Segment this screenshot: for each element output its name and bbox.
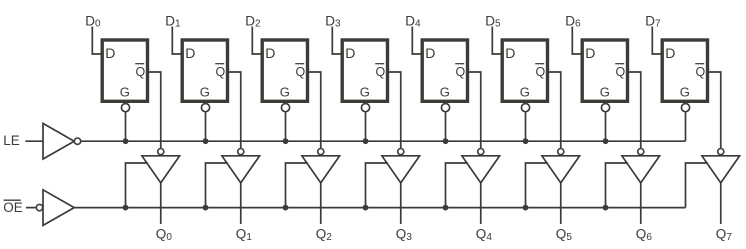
- svg-text:Q7: Q7: [716, 227, 733, 243]
- latch U1 (D latch, bit 0): [102, 40, 147, 101]
- pin label G (U2): [200, 84, 210, 99]
- wire T4 output to Q3: [400, 183, 402, 224]
- svg-text:G: G: [280, 84, 290, 99]
- wire Q-bar of U8 to buffer T8: [709, 72, 721, 149]
- svg-text:D6: D6: [565, 13, 581, 29]
- wire G4 (U5 gate to LE line): [445, 112, 447, 141]
- svg-text:D4: D4: [405, 13, 421, 29]
- inverter OE buffer (bubble on input): [36, 190, 74, 226]
- tri-state inverting buffer T5 (bubble on input): [462, 149, 500, 183]
- tri-state inverting buffer T3 (bubble on input): [302, 149, 340, 183]
- svg-text:G: G: [360, 84, 370, 99]
- junction OE / EN5: [523, 205, 529, 211]
- latch U7 (D latch, bit 6): [582, 40, 627, 101]
- junction OE / EN6: [603, 205, 609, 211]
- svg-text:D: D: [665, 45, 675, 61]
- bubble G input (U2, active level): [201, 104, 209, 112]
- wire D1 input: [172, 27, 182, 55]
- pin label Q-bar (U5): [455, 64, 465, 79]
- svg-text:Q: Q: [296, 65, 306, 79]
- svg-text:Q: Q: [456, 65, 466, 79]
- svg-text:Q: Q: [616, 65, 626, 79]
- bubble G input (U8, active level): [681, 104, 689, 112]
- tri-state inverting buffer T1 (bubble on input): [142, 149, 180, 183]
- latch U2 (D latch, bit 1): [182, 40, 227, 101]
- wire T6 output to Q5: [560, 183, 562, 224]
- net label LE: [3, 133, 20, 148]
- net label Q7: [716, 227, 733, 243]
- bubble G input (U4, active level): [361, 104, 369, 112]
- net label D0: [85, 13, 101, 29]
- net label Q1: [236, 227, 253, 243]
- pin label G (U3): [280, 84, 290, 99]
- svg-text:G: G: [120, 84, 130, 99]
- wire G6 (U7 gate to LE line): [605, 112, 607, 141]
- wire OE tap to T2 enable: [206, 163, 228, 208]
- svg-text:D: D: [265, 45, 275, 61]
- latch U5 (D latch, bit 4): [422, 40, 467, 101]
- pin label Q-bar (U3): [295, 64, 305, 79]
- svg-text:Q: Q: [696, 65, 706, 79]
- latch U8 (D latch, bit 7): [662, 40, 707, 101]
- wire Q-bar of U5 to buffer T5: [469, 72, 481, 149]
- svg-text:Q2: Q2: [316, 227, 333, 243]
- net label D2: [245, 13, 261, 29]
- wire Q-bar of U3 to buffer T3: [309, 72, 321, 149]
- net label D1: [165, 13, 181, 29]
- inverter LE buffer: [43, 123, 81, 159]
- wire OE tap to T4 enable: [366, 163, 388, 208]
- junction LE / G2: [283, 138, 289, 144]
- wire Q-bar of U1 to buffer T1: [149, 72, 161, 149]
- wire OE tap to T5 enable: [446, 163, 468, 208]
- svg-text:Q6: Q6: [636, 227, 653, 243]
- svg-text:D5: D5: [485, 13, 501, 29]
- svg-text:D: D: [345, 45, 355, 61]
- svg-text:G: G: [520, 84, 530, 99]
- tri-state inverting buffer T2 (bubble on input): [222, 149, 260, 183]
- pin label G (U7): [600, 84, 610, 99]
- junction OE / EN3: [363, 205, 369, 211]
- pin label D (U8): [665, 45, 675, 61]
- pin label D (U1): [105, 45, 115, 61]
- pin label D (U5): [425, 45, 435, 61]
- pin label G (U5): [440, 84, 450, 99]
- tri-state inverting buffer T4 (bubble on input): [382, 149, 420, 183]
- svg-text:G: G: [440, 84, 450, 99]
- junction OE / EN2: [283, 205, 289, 211]
- svg-text:D1: D1: [165, 13, 181, 29]
- tri-state inverting buffer T7 (bubble on input): [622, 149, 660, 183]
- svg-text:D3: D3: [325, 13, 341, 29]
- net label D5: [485, 13, 501, 29]
- svg-text:Q: Q: [216, 65, 226, 79]
- bubble G input (U6, active level): [521, 104, 529, 112]
- wire G5 (U6 gate to LE line): [525, 112, 527, 141]
- wire Q-bar of U7 to buffer T7: [629, 72, 641, 149]
- wire D5 input: [492, 27, 502, 55]
- wire T8 output to Q7: [720, 183, 722, 224]
- pin label Q-bar (U7): [615, 64, 625, 79]
- wire OE tap to T7 enable: [606, 163, 628, 208]
- svg-text:Q0: Q0: [156, 227, 173, 243]
- net label Q6: [636, 227, 653, 243]
- svg-text:Q: Q: [376, 65, 386, 79]
- junction LE / G5: [523, 138, 529, 144]
- junction LE / G0: [123, 138, 129, 144]
- wire OE tap to T3 enable: [286, 163, 308, 208]
- wire G3 (U4 gate to LE line): [365, 112, 367, 141]
- svg-text:G: G: [680, 84, 690, 99]
- svg-text:D: D: [505, 45, 515, 61]
- svg-text:Q5: Q5: [556, 227, 573, 243]
- pin label Q-bar (U2): [215, 64, 225, 79]
- svg-text:D: D: [425, 45, 435, 61]
- pin label G (U4): [360, 84, 370, 99]
- wire D3 input: [332, 27, 342, 55]
- pin label G (U6): [520, 84, 530, 99]
- pin label Q-bar (U4): [375, 64, 385, 79]
- wire G7 (U8 gate to LE line): [685, 112, 687, 141]
- wire T5 output to Q4: [480, 183, 482, 224]
- tri-state inverting buffer T8 (bubble on input): [702, 149, 740, 183]
- wire OE tap to T6 enable: [526, 163, 548, 208]
- net label D4: [405, 13, 421, 29]
- wire D0 input: [92, 27, 102, 55]
- net label D7: [645, 13, 661, 29]
- svg-text:G: G: [600, 84, 610, 99]
- net label Q4: [476, 227, 493, 243]
- svg-text:OE: OE: [3, 200, 23, 215]
- svg-text:Q: Q: [136, 65, 146, 79]
- wire T2 output to Q1: [240, 183, 242, 224]
- svg-text:D0: D0: [85, 13, 101, 29]
- pin label D (U3): [265, 45, 275, 61]
- wire T1 output to Q0: [160, 183, 162, 224]
- pin label G (U8): [680, 84, 690, 99]
- wire LE input: [25, 140, 43, 142]
- net label D3: [325, 13, 341, 29]
- wire Q-bar of U6 to buffer T6: [549, 72, 561, 149]
- svg-text:D: D: [105, 45, 115, 61]
- svg-text:Q3: Q3: [396, 227, 413, 243]
- wire D7 input: [652, 27, 662, 55]
- wire OE tap to T8 enable: [686, 163, 708, 208]
- pin label D (U4): [345, 45, 355, 61]
- wire OE line: [74, 207, 685, 209]
- wire G1 (U2 gate to LE line): [205, 112, 207, 141]
- bubble G input (U5, active level): [441, 104, 449, 112]
- pin label Q-bar (U1): [135, 64, 145, 79]
- svg-text:D7: D7: [645, 13, 661, 29]
- svg-text:Q: Q: [536, 65, 546, 79]
- wire LE line: [81, 140, 686, 142]
- tri-state inverting buffer T6 (bubble on input): [542, 149, 580, 183]
- net label OE (active low): [3, 200, 23, 215]
- svg-text:D: D: [585, 45, 595, 61]
- latch U3 (D latch, bit 2): [262, 40, 307, 101]
- wire D2 input: [252, 27, 261, 55]
- wire Q-bar of U2 to buffer T2: [229, 72, 241, 149]
- pin label Q-bar (U6): [535, 64, 545, 79]
- latch U6 (D latch, bit 5): [502, 40, 547, 101]
- svg-text:Q4: Q4: [476, 227, 493, 243]
- bubble G input (U1, active level): [121, 104, 129, 112]
- net label D6: [565, 13, 581, 29]
- bubble G input (U7, active level): [601, 104, 609, 112]
- latch U4 (D latch, bit 3): [342, 40, 387, 101]
- wire OE input: [26, 207, 36, 209]
- bubble G input (U3, active level): [281, 104, 289, 112]
- net label Q2: [316, 227, 333, 243]
- junction LE / G3: [363, 138, 369, 144]
- wire Q-bar of U4 to buffer T4: [389, 72, 401, 149]
- pin label Q-bar (U8): [695, 64, 705, 79]
- net label Q5: [556, 227, 573, 243]
- wire G0 (U1 gate to LE line): [125, 112, 127, 141]
- junction LE / G6: [603, 138, 609, 144]
- junction OE / EN1: [203, 205, 209, 211]
- wire OE tap to T1 enable: [126, 163, 148, 208]
- wire T3 output to Q2: [320, 183, 322, 224]
- net label Q3: [396, 227, 413, 243]
- junction LE / G1: [203, 138, 209, 144]
- svg-text:D2: D2: [245, 13, 261, 29]
- pin label D (U7): [585, 45, 595, 61]
- net label Q0: [156, 227, 173, 243]
- pin label G (U1): [120, 84, 130, 99]
- junction OE / EN4: [443, 205, 449, 211]
- svg-text:Q1: Q1: [236, 227, 253, 243]
- pin label D (U6): [505, 45, 515, 61]
- junction LE / G4: [443, 138, 449, 144]
- svg-text:LE: LE: [3, 133, 20, 148]
- junction OE / EN0: [123, 205, 129, 211]
- wire G2 (U3 gate to LE line): [285, 112, 287, 141]
- wire D4 input: [412, 27, 422, 55]
- svg-text:D: D: [185, 45, 195, 61]
- svg-text:G: G: [200, 84, 210, 99]
- wire D6 input: [572, 27, 582, 55]
- pin label D (U2): [185, 45, 195, 61]
- wire T7 output to Q6: [640, 183, 642, 224]
